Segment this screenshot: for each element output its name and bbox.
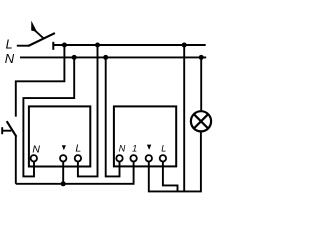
svg-text:N: N (32, 143, 40, 155)
svg-text:N: N (5, 51, 15, 66)
junction dot L1 (62, 43, 67, 48)
junction dot L2 (95, 43, 100, 48)
wire L bus to pushbutton (via junction L1) (16, 45, 65, 117)
wire L bus to left box L terminal (via junction L2) (78, 45, 98, 176)
wire N bus to left box N terminal (via junction N1) (23, 57, 74, 176)
junction dot N2 (103, 55, 108, 60)
wire L bus down right side (junction L3) (183, 45, 185, 191)
svg-text:N: N (119, 144, 126, 154)
svg-text:L: L (6, 38, 13, 52)
wire N bus (20, 56, 206, 58)
U1 terminal N circle (31, 155, 37, 161)
relay unit U1 box (29, 106, 90, 166)
pushbutton S2 actuator (2, 127, 11, 134)
wire right box output to lamp line (149, 131, 201, 191)
U1 terminal L circle (75, 155, 81, 161)
U1 terminal trigger circle (60, 155, 66, 161)
junction dot L3 (182, 43, 187, 48)
wire N bus to lamp top (junction N3) (200, 57, 202, 111)
switch S1 actuating arrow (31, 21, 44, 39)
wire right box L terminal feed (stepped) (163, 162, 178, 192)
junction dot signal line (61, 181, 66, 186)
switch S1 feed wire from L (17, 45, 29, 47)
switch S1 fixed contact tick (52, 42, 54, 50)
svg-text:L: L (75, 142, 81, 154)
relay unit U2 box (114, 106, 176, 166)
switch S1 blade (28, 33, 55, 46)
U1 label trigger arrow (62, 145, 66, 150)
junction dot N1 (72, 55, 77, 60)
U2 terminal 1 circle (130, 155, 136, 161)
wire N bus to right box N terminal (via junction N2) (106, 57, 120, 176)
U2 label trigger arrow (147, 145, 151, 150)
wire signal line from pushbutton to right box input 1 (16, 162, 134, 184)
svg-text:L: L (161, 143, 166, 153)
wire pushbutton bottom contact (15, 136, 17, 184)
U2 terminal trigger circle (146, 155, 152, 161)
pushbutton S2 blade (7, 121, 17, 137)
wire L bus (53, 44, 205, 46)
lamp E1 (191, 111, 211, 131)
U2 terminal L circle (160, 155, 166, 161)
wire left box trigger output riser (62, 162, 64, 184)
junction dot N3 (199, 55, 204, 60)
U2 terminal N circle (116, 155, 122, 161)
svg-text:1: 1 (132, 144, 137, 154)
